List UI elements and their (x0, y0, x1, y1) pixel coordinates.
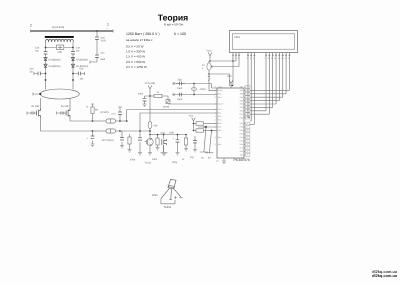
sketch leg tick marks (169, 196, 182, 199)
svg-text:9: 9 (271, 57, 272, 60)
pin stubs group2 control (248, 53, 254, 56)
transistor VT2 mosfet (66, 108, 70, 118)
svg-text:MCLR: MCLR (218, 103, 224, 106)
svg-text:КН Д522(Н): КН Д522(Н) (49, 65, 61, 68)
resistor R10 (157, 135, 159, 148)
node lower bus x140 (139, 130, 141, 132)
capacitor C1v right branch (78, 72, 80, 76)
svg-text:VCC: VCC (189, 115, 194, 118)
wire pot bottom (209, 70, 230, 85)
capacitor C9 15pF (179, 93, 181, 97)
wire DB4 bus (250, 56, 279, 101)
svg-text:RB7: RB7 (240, 86, 243, 89)
resistor R5 above upper bus (91, 104, 94, 121)
svg-text:15pF: 15pF (177, 87, 183, 90)
wire right branch (73, 72, 85, 75)
wire top link rail (46, 47, 74, 49)
wire feed bottom (90, 61, 97, 64)
svg-text:R ant = 50 Om: R ant = 50 Om (164, 22, 184, 26)
svg-text:RB3: RB3 (240, 99, 243, 102)
sketch leg right (174, 189, 181, 197)
wire tl431 bus (150, 131, 186, 135)
node vcc lcd (209, 60, 211, 62)
svg-text:6: 6 (253, 57, 254, 60)
svg-text:КПЕ: КПЕ (58, 51, 63, 54)
node vcc5 (149, 95, 151, 97)
svg-text:RA3: RA3 (240, 150, 243, 153)
svg-text:ZQ1: ZQ1 (178, 79, 183, 82)
display HG1 screen (232, 34, 294, 49)
wire E control (250, 56, 254, 125)
pin labels inside left (218, 86, 243, 157)
svg-text:АТ Д522(Н): АТ Д522(Н) (76, 58, 88, 61)
wire tube left down lead (40, 98, 42, 108)
svg-text:C16: C16 (101, 37, 106, 40)
tube VL1 envelope (40, 89, 79, 99)
resistor R8 1k (150, 95, 154, 97)
wire DB2 bus (250, 56, 273, 108)
svg-text:КН Д522(Н): КН Д522(Н) (49, 58, 61, 61)
switch S2 (205, 131, 213, 153)
resistor R7 below bus x129.5 (129, 134, 131, 150)
svg-text:1: 1 (107, 23, 109, 27)
ground osc lower (173, 93, 176, 96)
pin row left ticks (214, 86, 216, 145)
svg-text:RB5: RB5 (218, 143, 221, 146)
capacitor C8 15pF (179, 82, 181, 86)
svg-text:100n: 100n (111, 113, 115, 116)
svg-text:Rз 10R: Rз 10R (32, 105, 40, 108)
ground R7 (128, 150, 132, 153)
node pot bottom (208, 73, 210, 75)
resistor R13 pullup (194, 130, 197, 132)
svg-text:3: 3 (238, 57, 239, 60)
svg-text:47µ: 47µ (190, 156, 195, 159)
svg-text:RB2: RB2 (240, 103, 243, 106)
wire DB3 bus (250, 56, 276, 104)
transformer T1 core (45, 36, 74, 38)
sketch leg left (161, 188, 170, 198)
svg-text:2.0 V = 800 W: 2.0 V = 800 W (126, 60, 145, 64)
wire antenna line (31, 30, 114, 32)
svg-text:RB4: RB4 (240, 96, 243, 99)
svg-text:RC3: RC3 (240, 129, 243, 132)
capacitor C1a on left rail (44, 52, 48, 55)
svg-text:8: 8 (268, 57, 269, 60)
svg-text:PIC16F873: PIC16F873 (233, 158, 249, 162)
svg-text:1: 1 (232, 57, 233, 60)
ground mcu (222, 158, 226, 164)
svg-text:C1б: C1б (30, 68, 35, 71)
ground osc upper (173, 82, 176, 85)
node upper bus to mcu (126, 120, 128, 122)
svg-text:by DL2KQ: by DL2KQ (52, 26, 64, 29)
node left rail tap (45, 73, 47, 75)
trimmer C2 (57, 45, 64, 50)
svg-text:КС147А: КС147А (101, 111, 110, 114)
svg-text:RA2: RA2 (240, 154, 243, 157)
svg-text:C1н: C1н (76, 47, 81, 50)
svg-text:RC2: RC2 (240, 133, 243, 136)
node upper bus mid (119, 120, 121, 122)
svg-text:RA4: RA4 (218, 96, 221, 99)
svg-text:dl2kq.com.ua: dl2kq.com.ua (372, 273, 398, 278)
wire source VT1 to lower bus (41, 118, 93, 131)
svg-text:7: 7 (265, 57, 266, 60)
transformer T1 winding (46, 39, 74, 42)
op-amp U1 PIC16F873 body (217, 88, 244, 158)
node R9 bottom (149, 130, 151, 132)
svg-text:RC6: RC6 (240, 116, 243, 119)
svg-text:OSC1: OSC1 (218, 86, 223, 89)
capacitor C1b left branch (38, 72, 40, 76)
wire DB0 bus (250, 56, 266, 111)
pin stubs group3 data (266, 53, 289, 56)
svg-text:КРЕН: КРЕН (152, 194, 158, 197)
capacitor C14 below bus x140 (139, 131, 141, 153)
resistor R9 470 (148, 121, 152, 128)
svg-text:RC4: RC4 (240, 126, 243, 129)
ground C11 (91, 144, 95, 147)
svg-text:1.0 V = 200 W: 1.0 V = 200 W (126, 50, 145, 54)
potentiometer R3 (208, 61, 210, 63)
crystal ZQ1 (193, 84, 195, 95)
wire DB5 bus (250, 56, 283, 97)
pin slash mark (208, 78, 211, 81)
svg-text:2: 2 (235, 57, 236, 60)
node tube lead (39, 93, 41, 95)
capacitor C11 below lower bus (92, 131, 94, 144)
wire source VT2 to upper bus (70, 118, 93, 121)
diode VD2 left (44, 64, 47, 67)
svg-text:4700: 4700 (130, 159, 136, 162)
node xtal lower (193, 94, 195, 96)
wire tube right down lead (69, 99, 71, 108)
diode VD3 right (71, 58, 74, 61)
capacitor C1n right rail (71, 52, 75, 55)
svg-text:RC1: RC1 (240, 136, 243, 139)
sketch wire bracket (161, 199, 175, 204)
wire DB1 bus (250, 56, 269, 114)
node right rail tap (72, 73, 74, 75)
svg-text:Rз 10R: Rз 10R (61, 105, 69, 108)
svg-text:RB2: RB2 (218, 129, 221, 132)
display HG1 outer body (230, 31, 298, 53)
node switch S2 tap (211, 130, 213, 132)
capacitor C13 below bus x122 (121, 131, 123, 146)
transistor U2 TL431 (149, 135, 151, 139)
svg-text:RB5: RB5 (240, 93, 243, 96)
sketch leg mid (170, 189, 173, 200)
transistor VT1 mosfet (37, 108, 41, 118)
svg-text:RC0: RC0 (240, 140, 243, 143)
wire pot wiper to lcd pin3 (214, 56, 239, 67)
wire lcd pin1 down to vcc mcu node (232, 61, 233, 86)
tick below pot node (208, 75, 210, 77)
node xtal upper (193, 83, 195, 85)
wire osc lower rail (176, 94, 217, 96)
transistor VT3 (163, 135, 165, 140)
node pullup top (193, 123, 195, 125)
svg-text:100n: 100n (152, 158, 158, 161)
svg-text:зелён: зелён (163, 106, 170, 109)
svg-text:2: 2 (30, 24, 32, 28)
wire feed column (96, 31, 98, 62)
capacitor C19 100u (177, 135, 179, 153)
power VCC lcd symbol (208, 53, 212, 62)
svg-text:RA3: RA3 (218, 119, 221, 122)
svg-text:7-5П: 7-5П (101, 39, 106, 42)
ground C13 (120, 146, 124, 149)
svg-text:RA2: RA2 (218, 115, 221, 118)
capacitor C16 (95, 37, 99, 40)
svg-text:RB1: RB1 (218, 126, 221, 129)
sketch regulator package (168, 179, 176, 188)
svg-text:15pF: 15pF (177, 98, 183, 101)
svg-text:RB0: RB0 (240, 110, 243, 113)
svg-text:RA5: RA5 (218, 93, 221, 96)
svg-text:осн: осн (216, 159, 219, 162)
svg-text:1250 Ватт ( 290.0 V ): 1250 Ватт ( 290.0 V ) (126, 32, 159, 36)
wire mcu RA0 (127, 110, 217, 122)
svg-text:RB0: RB0 (218, 122, 221, 125)
svg-text:RA4: RA4 (240, 147, 243, 150)
svg-text:К = 100: К = 100 (174, 32, 186, 36)
wire lower bus continues (120, 130, 150, 132)
wire left branch (34, 72, 46, 75)
wire mcu RA1 (140, 113, 217, 131)
node tl bus a (149, 134, 151, 136)
svg-text:4: 4 (247, 57, 248, 60)
diode VD7 green (166, 100, 170, 104)
svg-text:HG1: HG1 (235, 36, 241, 39)
svg-text:RC5: RC5 (240, 122, 243, 125)
svg-text:МкФ: МкФ (101, 58, 106, 61)
svg-text:RC7: RC7 (240, 113, 243, 116)
wire osc upper rail (176, 84, 217, 89)
svg-text:TL431: TL431 (145, 162, 152, 165)
svg-text:VCC(+5B): VCC(+5B) (145, 82, 156, 85)
svg-text:100n: 100n (138, 93, 144, 96)
svg-text:OSC2: OSC2 (218, 89, 223, 92)
svg-text:КС147А(Н): КС147А(Н) (102, 139, 114, 142)
svg-text:0.5 V = 50 W: 0.5 V = 50 W (126, 44, 144, 48)
node right rail lower (72, 79, 74, 81)
diode VD1 left (44, 58, 47, 61)
zener VD6 in lower bus (93, 130, 107, 132)
svg-text:RB6: RB6 (240, 89, 243, 92)
wire vcc rail to lcd pins (210, 56, 236, 61)
wire DB7 bus (250, 56, 289, 91)
svg-text:1.5 V = 450 W: 1.5 V = 450 W (126, 55, 145, 59)
capacitor C20 (194, 136, 196, 150)
ground VT3 big (161, 153, 168, 156)
wire tube cathode lead (33, 93, 40, 96)
ground U2 (148, 153, 152, 156)
wire right rail (72, 48, 74, 90)
node lcd pin1 tap (232, 60, 234, 62)
svg-text:C10: C10 (35, 47, 40, 50)
svg-text:упор → СОР: упор → СОР (161, 131, 175, 134)
node lower bus R tap (92, 130, 94, 132)
svg-text:2.5 V = 1250 W: 2.5 V = 1250 W (126, 65, 147, 69)
svg-text:VCC: VCC (207, 49, 212, 52)
node left rail top (45, 47, 47, 49)
resistor R12 pullup (194, 123, 197, 125)
node switch S1 tap (205, 126, 207, 128)
node right rail top (72, 47, 74, 49)
wire winding left lead (45, 42, 47, 48)
svg-text:RB1: RB1 (240, 106, 243, 109)
wire RS control (248, 56, 250, 118)
wire DB6 bus (250, 56, 286, 94)
wire upper bus end (120, 120, 127, 122)
wire pot bottom to mcu pin (209, 74, 217, 90)
svg-text:RA5: RA5 (240, 143, 243, 146)
ground C14 (138, 153, 142, 156)
node left rail lower (45, 79, 47, 81)
resistor R11 (185, 135, 187, 149)
pin stubs group1 power (233, 53, 239, 56)
node junction on antenna line (96, 30, 98, 32)
wire vcc5 down column (149, 96, 151, 131)
svg-text:4 МГц: 4 МГц (200, 88, 207, 91)
node lower bus mid (119, 130, 121, 132)
svg-text:TL431: TL431 (164, 206, 172, 209)
capacitor C17 (95, 55, 99, 58)
wire R8 to mcu MCLR (162, 96, 217, 104)
wire winding right lead (72, 42, 74, 48)
diode VD8 mid (198, 126, 217, 128)
svg-text:5: 5 (250, 57, 251, 60)
capacitor C12 above bus (118, 107, 122, 121)
diode VD4 right (71, 64, 74, 67)
zener VD5 in upper bus (93, 120, 107, 122)
svg-text:RA1: RA1 (218, 112, 221, 115)
svg-text:на шкале 2 ПИКа с: на шкале 2 ПИКа с (126, 38, 153, 42)
svg-text:VCC: VCC (227, 75, 232, 78)
capacitor C15 at vcc (145, 96, 151, 104)
node upper bus R tap (92, 120, 94, 122)
pin row right with number boxes (244, 86, 250, 157)
wire RW control (250, 56, 251, 121)
wire left rail (45, 48, 47, 90)
svg-text:Теория: Теория (158, 13, 188, 23)
svg-text:RA0: RA0 (218, 108, 221, 111)
node pullup bottom (193, 130, 195, 132)
svg-text:100µ: 100µ (172, 161, 178, 164)
svg-text:RB4: RB4 (218, 136, 221, 139)
switch S1 (200, 127, 208, 152)
